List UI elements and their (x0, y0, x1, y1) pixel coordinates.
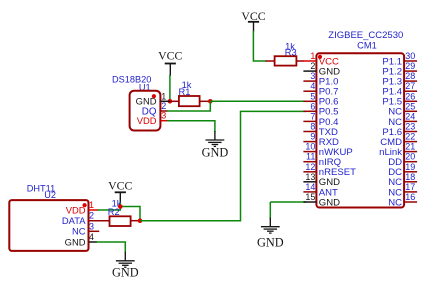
wire U1 VDD to ground (167, 121, 215, 132)
svg-text:NC: NC (388, 197, 402, 208)
CM1 pin 8 (TXD) (303, 122, 338, 138)
CM1 pin 12 (nRESET) (303, 162, 356, 178)
node junction R1 right (208, 99, 213, 104)
svg-text:24: 24 (405, 111, 415, 121)
CM1 pin 10 (nWKUP) (303, 142, 352, 158)
node junction R2 right (138, 218, 143, 223)
svg-text:19: 19 (405, 162, 415, 172)
svg-text:16: 16 (405, 192, 415, 202)
U2 pin 3 (NC) (89, 221, 100, 231)
svg-text:30: 30 (405, 51, 415, 61)
CM1 pin 28 (P1.3) (382, 71, 417, 87)
svg-text:NC: NC (72, 226, 86, 237)
wire U1 DQ to R1 right junction (167, 101, 210, 111)
resistor R1 1k (170, 80, 210, 106)
CM1 pin 1 (VCC) (303, 51, 339, 67)
svg-text:12: 12 (305, 162, 315, 172)
svg-text:ZIGBEE_CC2530: ZIGBEE_CC2530 (328, 30, 403, 41)
svg-text:1: 1 (161, 91, 166, 101)
node junction at DS18B20 pin1 / R1 left (168, 99, 173, 104)
svg-text:GND: GND (65, 236, 86, 247)
wire U2 pin1 VDD up to junction (97, 207, 120, 211)
svg-text:GND: GND (202, 146, 229, 160)
svg-text:GND: GND (257, 236, 284, 250)
CM1 pin 4 (P0.7) (303, 81, 338, 97)
CM1 pin 9 (RXD) (303, 132, 339, 148)
svg-text:7: 7 (310, 111, 315, 121)
svg-text:3: 3 (310, 71, 315, 81)
svg-text:27: 27 (405, 81, 415, 91)
CM1 pin 23 (P1.6) (382, 122, 417, 138)
svg-text:13: 13 (305, 172, 315, 182)
CM1 pin 7 (P0.4) (303, 111, 339, 127)
svg-text:VCC: VCC (158, 49, 182, 63)
CM1 pin 16 (NC) (388, 192, 417, 208)
wire VCC stem to junction (119, 202, 121, 206)
CM1 pin 11 (nIRQ) (303, 152, 341, 168)
resistor R3 1k (266, 41, 304, 65)
svg-text:17: 17 (405, 182, 415, 192)
U1 pin 1 (GND) (160, 91, 170, 101)
svg-text:25: 25 (405, 101, 415, 111)
svg-text:11: 11 (306, 152, 315, 162)
U2 pin 1 (VDD) (89, 200, 98, 210)
svg-text:8: 8 (310, 122, 315, 132)
wire junction to R2 right junction (120, 207, 140, 221)
svg-text:9: 9 (310, 132, 315, 142)
CM1 pin 17 (NC) (388, 182, 417, 198)
CM1 pin 18 (NC) (388, 172, 417, 188)
wire VCC to R3 (253, 31, 266, 61)
CM1 pin 6 (P0.5) (303, 101, 338, 117)
U2 pin 4 (GND) (89, 232, 98, 242)
ground below U1 (202, 131, 229, 160)
power symbol VCC (above U2 DHT11) (108, 179, 132, 204)
svg-text:2: 2 (89, 211, 94, 221)
svg-text:4: 4 (310, 81, 315, 91)
svg-text:GND: GND (112, 266, 139, 280)
svg-text:CM1: CM1 (357, 41, 377, 51)
svg-text:29: 29 (405, 61, 415, 71)
CM1 pin 26 (P1.5) (382, 91, 417, 107)
ground below U2 (112, 252, 139, 280)
CM1 pin 22 (CMD) (380, 132, 417, 148)
svg-text:VCC: VCC (108, 179, 132, 193)
CM1 pin 21 (nLink) (379, 142, 417, 158)
svg-text:1: 1 (310, 51, 315, 61)
svg-text:20: 20 (405, 152, 415, 162)
CM1 pin 19 (DC) (388, 162, 417, 178)
wire VCC to DS18B20 pin1 junction (169, 75, 171, 101)
wire CM1 pin15 GND to ground (269, 202, 271, 219)
svg-text:3: 3 (89, 221, 94, 231)
ground below CM1 (257, 218, 284, 250)
svg-text:DATA: DATA (62, 215, 86, 226)
CM1 pin 13 (GND) (303, 172, 340, 188)
svg-text:15: 15 (305, 192, 315, 202)
wire R2 junction to CM1 pin6 P0.5 (140, 111, 306, 220)
svg-text:GND: GND (319, 197, 340, 208)
CM1 pin 27 (P1.4) (382, 81, 417, 97)
power symbol VCC (above R1) (158, 49, 182, 76)
CM1 pin 5 (P0.6) (303, 91, 338, 107)
CM1 pin 30 (P1.1) (382, 51, 417, 67)
CM1 pin 3 (P1.0) (303, 71, 338, 87)
CM1 pin 25 (NC) (388, 101, 417, 117)
component U1 DS18B20 (112, 75, 160, 131)
svg-text:5: 5 (310, 91, 315, 101)
svg-text:3: 3 (161, 111, 166, 121)
component U2 DHT11 (9, 184, 88, 251)
CM1 pin 29 (P1.2) (382, 61, 417, 77)
CM1 pin 24 (NC) (388, 111, 417, 127)
svg-text:1: 1 (89, 200, 94, 210)
svg-text:VDD: VDD (137, 115, 157, 126)
svg-text:18: 18 (405, 172, 415, 182)
CM1 pin 14 (ANT) (303, 182, 338, 198)
svg-text:26: 26 (405, 91, 415, 101)
CM1 pin 20 (DD) (388, 152, 417, 168)
node junction above U2 pin1 (118, 204, 123, 209)
svg-text:2: 2 (161, 101, 166, 111)
wire U2 GND pin to ground (97, 242, 126, 253)
svg-text:U2: U2 (44, 190, 56, 200)
U1 pin 2 (DQ) (160, 101, 167, 111)
svg-text:4: 4 (89, 232, 94, 242)
U2 pin 2 (DATA) (89, 211, 110, 221)
CM1 pin 15 (GND) (303, 192, 340, 208)
svg-text:10: 10 (305, 142, 315, 152)
component CM1 ZIGBEE_CC2530 (316, 30, 404, 208)
svg-text:VCC: VCC (241, 9, 265, 23)
resistor R2 1k (108, 199, 140, 227)
svg-text:28: 28 (405, 71, 415, 81)
power symbol VCC (above R3) (241, 9, 265, 32)
svg-text:2: 2 (310, 61, 315, 71)
CM1 pin 2 (GND) (303, 61, 340, 77)
U1 pin 3 (VDD) (160, 111, 167, 121)
svg-text:21: 21 (405, 142, 415, 152)
svg-text:6: 6 (310, 101, 315, 111)
svg-text:22: 22 (405, 132, 415, 142)
svg-text:23: 23 (405, 122, 415, 132)
wire R1 junction to CM1 pin5 P0.6 (210, 100, 306, 102)
svg-text:14: 14 (305, 182, 315, 192)
